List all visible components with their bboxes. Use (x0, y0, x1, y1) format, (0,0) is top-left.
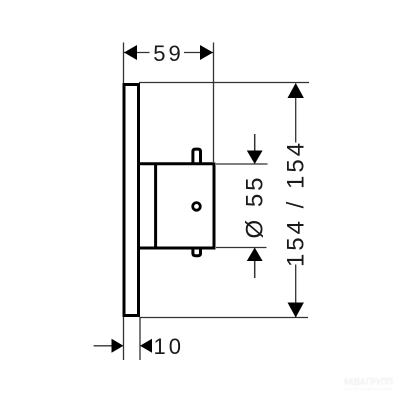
dimension 10: left tail line (94, 345, 113, 347)
dimension 59: dimension line left segment (124, 52, 150, 54)
dimension 59: right extension line (213, 43, 215, 163)
top stop-ring tab (193, 149, 201, 163)
dimension 10: right arrowhead (points left) (140, 339, 152, 353)
dimension 59: label (153, 41, 183, 66)
dimension 59: left extension line (123, 43, 125, 84)
dimension 154/154: top extension line (139, 82, 309, 84)
dimension 10: left arrowhead (points right) (112, 339, 124, 353)
dimension 59: left arrowhead (124, 45, 137, 60)
faceplate (escutcheon plate, side view) (124, 85, 139, 316)
dimension 59: dimension line right segment (184, 52, 213, 54)
dimension diameter 55: bottom extension line (216, 247, 267, 249)
dimension diameter 55: upper arrowhead (points down) (247, 151, 263, 165)
valve body left edge (154, 163, 157, 250)
valve body neck bottom line (138, 247, 214, 250)
svg-text:интернет магазин сантехники: интернет магазин сантехники (344, 386, 392, 391)
dimension 10: label (154, 334, 184, 359)
svg-text:59: 59 (153, 41, 183, 66)
screw hole on valve body (193, 203, 201, 211)
bottom stop-ring tab (193, 249, 201, 256)
dimension 10: right extension line (139, 317, 141, 360)
svg-text:10: 10 (154, 334, 184, 359)
dimension 10: left extension line (123, 317, 125, 360)
dimension diameter 55: top extension line (216, 163, 268, 165)
dimension 59: right arrowhead (200, 45, 213, 60)
dimension diameter 55: lower arrowhead (points up) (247, 248, 263, 262)
dimension 154/154: bottom extension line (140, 317, 308, 319)
dimension 154/154: top arrowhead (288, 83, 304, 98)
watermark logo bottom right (343, 376, 393, 391)
svg-text:Ø 55: Ø 55 (242, 174, 269, 238)
dimension 154/154: label (rotated) (283, 140, 310, 267)
dimension 154/154: dimension line lower segment (295, 265, 297, 318)
valve body right edge (213, 163, 216, 250)
dimension diameter 55: lower leader line (254, 249, 256, 279)
dimension 154/154: bottom arrowhead (288, 303, 304, 318)
dimension 154/154: dimension line upper segment (295, 84, 297, 143)
valve body neck top line (138, 162, 214, 165)
svg-text:154 / 154: 154 / 154 (283, 140, 310, 267)
dimension diameter 55: upper leader line (254, 134, 256, 163)
dimension diameter 55: label (rotated) (242, 174, 269, 238)
